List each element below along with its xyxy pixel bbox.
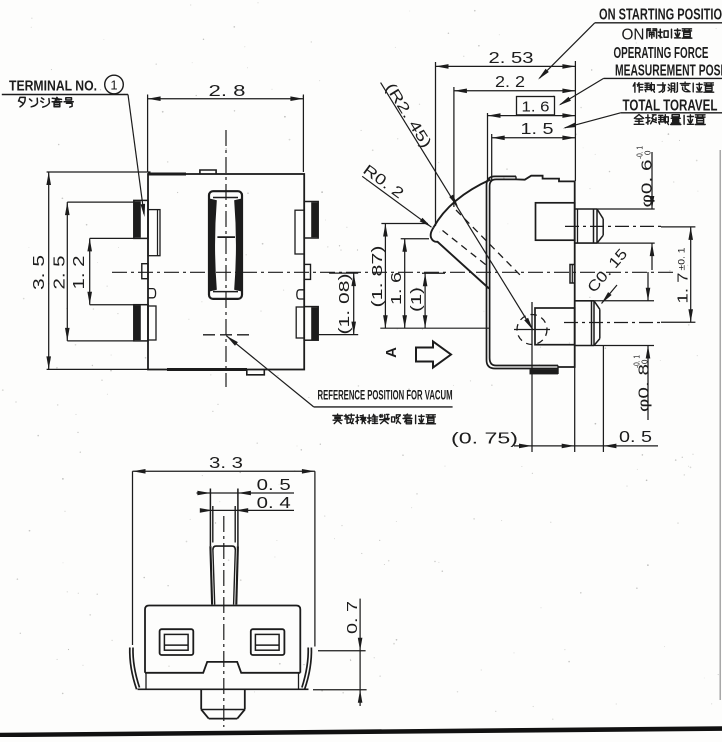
svg-text:OPERATING FORCE: OPERATING FORCE bbox=[614, 45, 709, 62]
svg-text:1. 6: 1. 6 bbox=[522, 99, 550, 116]
svg-text:0. 7: 0. 7 bbox=[344, 601, 361, 634]
svg-text:TOTAL TORAVEL: TOTAL TORAVEL bbox=[623, 98, 718, 115]
svg-text:0. 5: 0. 5 bbox=[257, 477, 291, 494]
svg-text:1. 2: 1. 2 bbox=[71, 255, 88, 289]
svg-text:ON STARTING POSITION: ON STARTING POSITION bbox=[599, 7, 722, 24]
svg-text:ON: ON bbox=[622, 27, 645, 44]
svg-text:1. 7: 1. 7 bbox=[675, 273, 692, 304]
svg-text:(1. 08): (1. 08) bbox=[337, 274, 353, 335]
svg-text:0. 5: 0. 5 bbox=[619, 429, 652, 446]
svg-text:(0. 75): (0. 75) bbox=[451, 431, 518, 448]
svg-text:0: 0 bbox=[641, 359, 650, 364]
svg-text:φ0. 8: φ0. 8 bbox=[636, 364, 653, 412]
svg-text:0. 4: 0. 4 bbox=[257, 495, 291, 512]
svg-text:2. 8: 2. 8 bbox=[209, 83, 246, 100]
svg-text:1. 5: 1. 5 bbox=[521, 121, 554, 138]
svg-text:φ0. 6: φ0. 6 bbox=[639, 160, 656, 208]
svg-text:3. 3: 3. 3 bbox=[209, 455, 243, 472]
svg-text:±0. 1: ±0. 1 bbox=[677, 248, 688, 271]
svg-text:(1): (1) bbox=[409, 287, 425, 312]
svg-text:3. 5: 3. 5 bbox=[31, 255, 48, 290]
svg-text:1: 1 bbox=[110, 78, 117, 93]
svg-text:TERMINAL NO.: TERMINAL NO. bbox=[9, 79, 97, 95]
svg-text:2. 53: 2. 53 bbox=[489, 50, 534, 67]
svg-text:2. 5: 2. 5 bbox=[52, 255, 69, 289]
svg-text:A: A bbox=[383, 347, 400, 358]
svg-text:(1. 87): (1. 87) bbox=[370, 246, 386, 308]
svg-text:MEASUREMENT POSITION: MEASUREMENT POSITION bbox=[615, 63, 722, 80]
svg-text:0: 0 bbox=[644, 150, 653, 155]
svg-text:1. 6: 1. 6 bbox=[389, 272, 405, 305]
svg-text:2. 2: 2. 2 bbox=[495, 74, 525, 91]
svg-text:REFERENCE POSITION FOR VACUM: REFERENCE POSITION FOR VACUM bbox=[318, 388, 453, 403]
